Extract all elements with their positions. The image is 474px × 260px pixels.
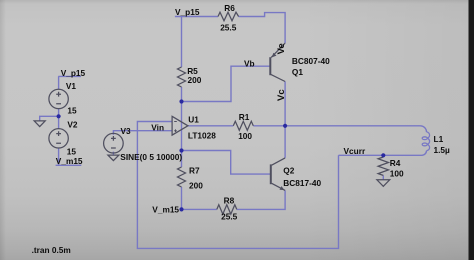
- svg-text:200: 200: [188, 75, 202, 85]
- svg-text:V_m15: V_m15: [152, 204, 179, 214]
- svg-text:U1: U1: [188, 115, 199, 125]
- svg-text:15: 15: [67, 146, 77, 156]
- svg-text:100: 100: [238, 131, 252, 141]
- svg-text:1.5µ: 1.5µ: [434, 145, 451, 155]
- svg-text:R8: R8: [224, 196, 235, 206]
- svg-text:V1: V1: [66, 81, 77, 91]
- svg-text:25.5: 25.5: [220, 23, 237, 33]
- svg-text:V2: V2: [67, 120, 78, 130]
- svg-text:Q1: Q1: [292, 67, 303, 77]
- svg-text:200: 200: [189, 181, 203, 191]
- svg-text:V_p15: V_p15: [175, 7, 200, 17]
- svg-text:Vb: Vb: [244, 59, 255, 69]
- svg-text:Vc: Vc: [276, 89, 287, 101]
- svg-text:LT1028: LT1028: [188, 131, 216, 141]
- svg-text:R4: R4: [390, 158, 401, 168]
- svg-text:Vcurr: Vcurr: [344, 146, 366, 156]
- svg-text:BC807-40: BC807-40: [292, 56, 330, 66]
- svg-text:R6: R6: [224, 3, 235, 13]
- svg-text:25.5: 25.5: [221, 211, 238, 221]
- svg-text:Ve: Ve: [276, 43, 287, 54]
- svg-text:R7: R7: [189, 166, 200, 176]
- svg-text:.tran 0.5m: .tran 0.5m: [32, 245, 71, 255]
- svg-text:15: 15: [67, 106, 77, 116]
- svg-text:Vin: Vin: [151, 122, 164, 132]
- svg-text:R1: R1: [239, 112, 250, 122]
- svg-text:SINE(0 5 10000): SINE(0 5 10000): [120, 152, 182, 162]
- svg-text:BC817-40: BC817-40: [283, 178, 321, 188]
- svg-text:V3: V3: [121, 126, 132, 136]
- svg-text:100: 100: [390, 168, 404, 178]
- svg-text:V_m15: V_m15: [56, 156, 83, 166]
- svg-text:L1: L1: [434, 134, 444, 144]
- svg-text:V_p15: V_p15: [61, 68, 86, 78]
- svg-text:Q2: Q2: [283, 165, 294, 175]
